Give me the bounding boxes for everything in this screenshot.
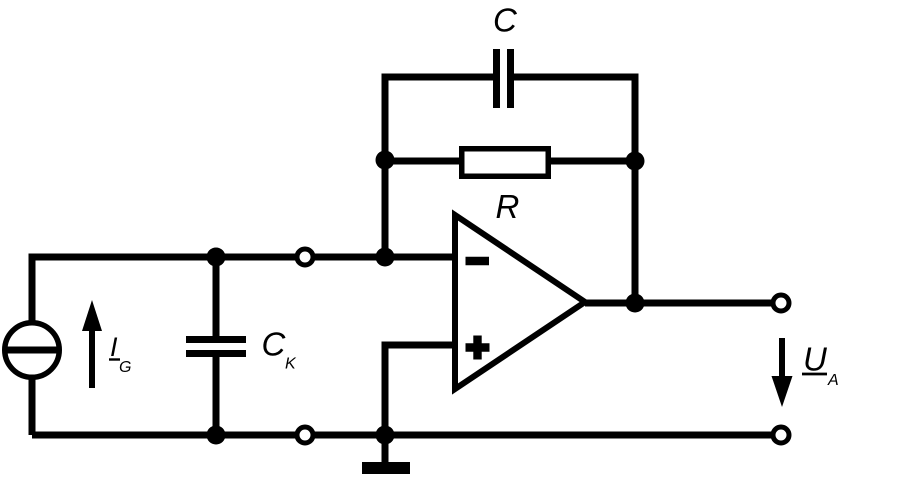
svg-text:R: R — [496, 188, 520, 225]
terminal output bottom — [773, 427, 789, 443]
arrow IG (current direction, up) — [82, 300, 102, 388]
junction dot inverting input node — [376, 248, 395, 267]
ground symbol — [362, 462, 410, 474]
terminal input top — [297, 249, 313, 265]
capacitor C plates — [497, 49, 511, 108]
wire CK branch vertical top segment — [213, 257, 220, 337]
current source IG horizontal bar — [6, 347, 58, 354]
op-amp inverting input minus sign — [466, 257, 490, 265]
wire ground stub — [382, 435, 389, 463]
op-amp U1 triangle — [455, 215, 585, 389]
terminal output top — [773, 295, 789, 311]
wire resistor branch left segment — [385, 158, 462, 165]
svg-text:A: A — [827, 372, 839, 389]
svg-text:U: U — [803, 341, 827, 378]
junction dot output node — [626, 294, 645, 313]
wire op-amp output net — [585, 300, 781, 307]
capacitor CK plates — [186, 340, 246, 354]
svg-text:I: I — [110, 332, 118, 362]
label IG (underlined) — [109, 332, 131, 376]
wire CK branch vertical bottom segment — [213, 356, 220, 435]
junction dot CK top — [207, 248, 226, 267]
label UA (underlined) — [802, 341, 839, 389]
op-amp non-inverting input plus sign — [466, 336, 490, 360]
wire feedback top branch right segment and right vertical — [514, 77, 635, 303]
wire left source loop: left vertical and top net to op-amp inverting input — [32, 257, 455, 435]
wire non-inverting input L from op-amp to bottom net — [385, 345, 455, 435]
wire feedback left vertical and top branch left segment — [385, 77, 493, 257]
terminal input bottom — [297, 427, 313, 443]
junction dot feedback right at R branch — [626, 152, 645, 171]
wire resistor branch right segment — [548, 158, 635, 165]
resistor R body — [462, 149, 549, 177]
junction dot feedback left at R branch — [376, 151, 395, 170]
label CK — [262, 326, 298, 373]
arrow UA (voltage direction, down) — [772, 338, 793, 407]
current source IG circle — [5, 323, 60, 378]
junction dot CK bottom — [207, 426, 226, 445]
wire bottom net (ground rail) — [32, 432, 781, 439]
svg-text:K: K — [285, 356, 297, 373]
svg-text:C: C — [262, 326, 287, 363]
junction dot ground node — [376, 426, 395, 445]
svg-text:G: G — [119, 359, 131, 376]
svg-text:C: C — [493, 2, 518, 39]
